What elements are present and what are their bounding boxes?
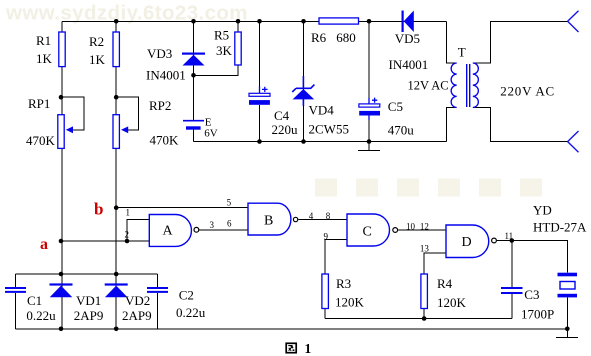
svg-text:1K: 1K	[89, 52, 106, 67]
svg-text:3: 3	[210, 220, 215, 230]
svg-text:R1: R1	[36, 33, 51, 48]
svg-text:3K: 3K	[216, 43, 233, 58]
svg-text:C2: C2	[179, 288, 194, 303]
svg-text:13: 13	[420, 244, 430, 254]
svg-text:120K: 120K	[437, 295, 467, 310]
svg-text:120K: 120K	[335, 295, 365, 310]
svg-text:9: 9	[324, 232, 329, 242]
svg-text:C5: C5	[388, 99, 403, 114]
svg-text:1: 1	[305, 341, 312, 356]
svg-text:2AP9: 2AP9	[122, 308, 152, 323]
svg-text:470K: 470K	[26, 133, 56, 148]
svg-text:b: b	[94, 200, 103, 219]
svg-text:0.22u: 0.22u	[176, 305, 206, 320]
svg-text:R4: R4	[437, 276, 453, 291]
svg-text:12: 12	[420, 222, 429, 232]
svg-text:D: D	[462, 235, 472, 250]
svg-text:IN4001: IN4001	[146, 68, 186, 83]
svg-text:680: 680	[336, 30, 356, 45]
svg-text:10: 10	[406, 222, 416, 232]
svg-text:VD5: VD5	[395, 31, 420, 46]
svg-text:2: 2	[125, 230, 130, 240]
svg-text:12V AC: 12V AC	[408, 79, 449, 93]
svg-text:R2: R2	[89, 34, 104, 49]
svg-text:4: 4	[309, 211, 314, 221]
svg-text:11: 11	[505, 231, 514, 241]
svg-text:HTD-27A: HTD-27A	[533, 220, 587, 235]
svg-text:RP1: RP1	[28, 96, 50, 111]
svg-text:IN4001: IN4001	[389, 57, 429, 72]
svg-text:YD: YD	[533, 203, 552, 218]
svg-text:1700P: 1700P	[521, 307, 554, 322]
svg-text:8: 8	[326, 211, 331, 221]
svg-text:R6: R6	[311, 30, 327, 45]
svg-text:T: T	[458, 44, 466, 59]
svg-text:1: 1	[126, 208, 131, 218]
svg-text:470K: 470K	[150, 133, 180, 148]
svg-text:220V AC: 220V AC	[500, 84, 555, 99]
svg-text:220u: 220u	[272, 122, 299, 137]
svg-text:5: 5	[227, 198, 232, 208]
svg-text:C4: C4	[274, 108, 290, 123]
svg-text:VD2: VD2	[125, 293, 150, 308]
svg-text:RP2: RP2	[149, 98, 171, 113]
svg-text:6: 6	[227, 219, 232, 229]
svg-text:R5: R5	[214, 28, 229, 43]
svg-text:1K: 1K	[36, 51, 53, 66]
svg-text:a: a	[40, 236, 48, 253]
svg-text:B: B	[264, 214, 273, 229]
svg-text:VD4: VD4	[309, 103, 335, 118]
svg-text:2AP9: 2AP9	[74, 308, 104, 323]
svg-text:A: A	[163, 224, 174, 239]
svg-text:2CW55: 2CW55	[309, 122, 349, 137]
svg-text:0.22u: 0.22u	[26, 308, 56, 323]
svg-text:VD1: VD1	[76, 293, 101, 308]
svg-text:C1: C1	[27, 293, 42, 308]
svg-text:C: C	[363, 225, 372, 240]
svg-text:6V: 6V	[204, 127, 218, 139]
svg-text:470u: 470u	[388, 123, 415, 138]
svg-text:C3: C3	[524, 287, 539, 302]
svg-text:R3: R3	[336, 276, 351, 291]
svg-text:VD3: VD3	[147, 46, 172, 61]
